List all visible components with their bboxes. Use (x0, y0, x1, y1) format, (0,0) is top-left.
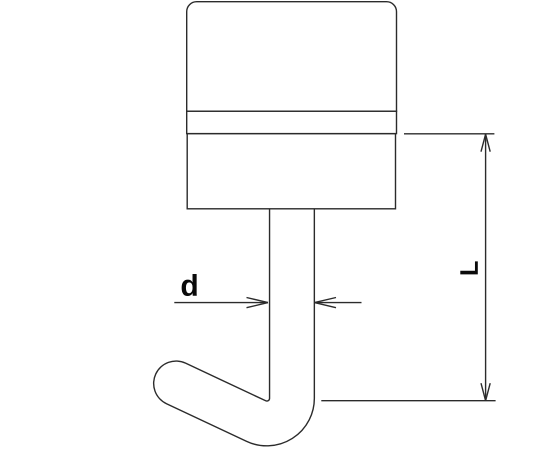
label L (rotated) (460, 261, 477, 274)
top cap (rounded top corners) (187, 2, 397, 112)
extension line bottom (hook inner level) (321, 400, 495, 402)
lower head block (187, 134, 395, 209)
extension line top (under head) (404, 133, 494, 135)
d dimension right arrow (315, 298, 362, 308)
label d (182, 274, 197, 296)
d dimension left arrow (174, 298, 268, 308)
hook rod (bent shank) (176, 200, 292, 423)
L dimension line with arrows (481, 134, 490, 401)
middle band (187, 111, 397, 133)
